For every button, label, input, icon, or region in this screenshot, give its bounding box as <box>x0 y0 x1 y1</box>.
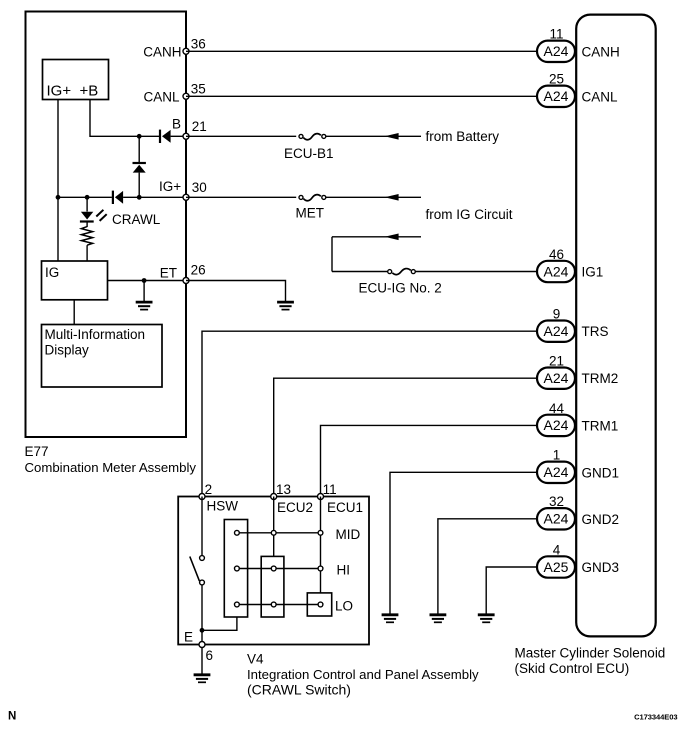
pin 6 <box>199 642 205 648</box>
svg-text:IG1: IG1 <box>582 265 604 280</box>
svg-text:GND3: GND3 <box>582 560 620 575</box>
pin 36 <box>183 48 189 54</box>
svg-text:TRM2: TRM2 <box>582 371 619 386</box>
wire TRM1 row <box>321 425 537 496</box>
wire pin 26 to outside ground <box>186 281 286 302</box>
svg-text:4: 4 <box>553 542 561 557</box>
svg-text:25: 25 <box>549 72 564 87</box>
switch S1 blade <box>190 557 200 582</box>
wire diode D1 to pin 21 <box>171 135 183 137</box>
pin 21 <box>183 133 189 139</box>
svg-text:HSW: HSW <box>207 499 239 514</box>
svg-text:E: E <box>184 629 193 644</box>
wire junction row21 down to diode D2 <box>138 136 140 162</box>
wire fuse ECU-B1 to arrow tail <box>326 135 421 137</box>
svg-text:32: 32 <box>549 494 564 509</box>
arrow from battery <box>385 133 399 140</box>
connector A24 pin 32 GND2 <box>537 494 619 529</box>
wire diode D2 to row 30 <box>138 173 140 198</box>
svg-text:A24: A24 <box>544 43 569 59</box>
svg-text:ET: ET <box>160 265 177 280</box>
wire IG circuit arrow line <box>332 236 421 238</box>
wire resistor to IG box <box>86 245 88 260</box>
wire row 30 left segment <box>58 196 112 198</box>
svg-text:21: 21 <box>549 354 564 369</box>
switch S1 lower contact <box>200 580 205 585</box>
wire HI row <box>237 568 321 570</box>
svg-text:LO: LO <box>335 599 353 614</box>
svg-text:A24: A24 <box>544 323 569 339</box>
wire fuse ECU-IG to IG1 oval <box>416 271 537 273</box>
svg-text:11: 11 <box>549 27 563 42</box>
contact ECU1/HI <box>318 566 323 571</box>
arrow from IG circuit <box>385 234 399 241</box>
wire GND1 row <box>390 472 536 614</box>
svg-text:21: 21 <box>192 119 207 134</box>
resistor R1 <box>81 227 92 246</box>
junction on row 30 right <box>137 195 142 200</box>
wire LO row <box>237 604 321 606</box>
wire pin 30 to fuse MET <box>186 196 296 198</box>
wire junction down to ground <box>143 281 145 302</box>
ground GND3 <box>478 615 495 623</box>
connector A24 pin 1 GND1 <box>537 448 619 483</box>
contact block ECU2 column <box>261 556 284 617</box>
fuse ECU-B1 <box>299 134 326 140</box>
svg-text:IG+: IG+ <box>47 83 72 100</box>
wire CANH row <box>186 50 536 52</box>
connector A24 pin 11 CANH <box>537 27 620 62</box>
svg-text:MET: MET <box>296 205 325 220</box>
pin 13 <box>271 494 277 500</box>
svg-text:V4: V4 <box>247 651 264 666</box>
contact HSW/HI <box>235 566 240 571</box>
contact HSW/MID <box>235 530 240 535</box>
wire GND2 row <box>438 519 536 614</box>
wire IG+ drop to IG box <box>57 100 59 261</box>
svg-text:CANH: CANH <box>582 44 620 59</box>
svg-text:CANH: CANH <box>143 44 181 59</box>
svg-text:Multi-Information: Multi-Information <box>45 327 146 342</box>
svg-text:44: 44 <box>549 401 565 416</box>
pin 35 <box>183 93 189 99</box>
wire pin 11 to LO block <box>320 497 322 593</box>
junction LED branch on row 30 <box>85 195 90 200</box>
wire ET row (IG box to pin 26) <box>108 280 184 282</box>
svg-text:TRM1: TRM1 <box>582 418 619 433</box>
svg-text:(Skid Control ECU): (Skid Control ECU) <box>515 661 630 676</box>
svg-text:CANL: CANL <box>582 89 619 104</box>
wire TRS row <box>202 331 536 496</box>
contact ECU2/MID <box>271 530 276 535</box>
wire pin 2 to switch <box>201 497 203 556</box>
connector A24 pin 9 TRS <box>537 307 609 342</box>
pin 2 <box>199 494 205 500</box>
contact ECU2/HI <box>271 566 276 571</box>
wire switch to node E <box>201 585 203 644</box>
fuse MET <box>299 195 326 201</box>
svg-text:11: 11 <box>323 482 337 497</box>
svg-text:HI: HI <box>337 563 351 578</box>
svg-text:6: 6 <box>206 648 214 663</box>
svg-text:IG: IG <box>45 265 59 280</box>
svg-text:Master Cylinder Solenoid: Master Cylinder Solenoid <box>515 645 666 660</box>
LED CRAWL (pointing down) <box>80 212 94 222</box>
junction IG+ drop / row 30 <box>56 195 61 200</box>
svg-text:A24: A24 <box>544 370 569 386</box>
svg-text:(CRAWL Switch): (CRAWL Switch) <box>247 682 351 698</box>
combination meter assembly box E77 <box>26 12 187 438</box>
ground (switch E) <box>194 675 211 683</box>
svg-text:C173344E03: C173344E03 <box>634 713 677 722</box>
diode D3 (row 30, pointing left) <box>113 191 123 204</box>
connector A24 pin 21 TRM2 <box>537 354 618 389</box>
svg-text:N: N <box>8 711 16 723</box>
multi-information display box <box>42 325 163 388</box>
svg-text:ECU-B1: ECU-B1 <box>284 146 334 161</box>
svg-text:Integration Control and Panel: Integration Control and Panel Assembly <box>247 667 479 682</box>
wire pin 21 to fuse ECU-B1 <box>186 135 296 137</box>
svg-text:IG+: IG+ <box>159 179 181 194</box>
connector A24 pin 44 TRM1 <box>537 401 618 436</box>
svg-text:from Battery: from Battery <box>426 129 500 144</box>
svg-text:B: B <box>172 117 181 132</box>
wire node E to contact block <box>202 617 237 630</box>
svg-text:A24: A24 <box>544 417 569 433</box>
wire pin 13 to ECU2 block <box>273 497 275 557</box>
svg-text:30: 30 <box>192 180 207 195</box>
LED emission arrows <box>96 210 106 221</box>
switch S1 upper contact <box>200 556 205 561</box>
svg-text:A24: A24 <box>544 511 569 527</box>
svg-text:Combination Meter Assembly: Combination Meter Assembly <box>25 460 197 475</box>
contact ECU1/MID <box>318 530 323 535</box>
contact HSW/LO <box>235 602 240 607</box>
ground (inside meter) <box>136 302 153 310</box>
diode D2 (vertical, pointing up) <box>133 163 146 173</box>
wire IG circuit drop <box>331 237 333 272</box>
svg-text:GND2: GND2 <box>582 512 620 527</box>
wire LED to resistor <box>86 222 88 228</box>
svg-text:from IG Circuit: from IG Circuit <box>426 207 513 222</box>
svg-text:Display: Display <box>45 343 90 358</box>
svg-text:A24: A24 <box>544 88 569 104</box>
svg-text:TRS: TRS <box>582 324 609 339</box>
svg-text:36: 36 <box>191 36 206 51</box>
connector A24 pin 25 CANL <box>537 72 618 107</box>
wire GND3 row <box>486 567 536 614</box>
wire IG box to display box <box>73 300 75 325</box>
pin 30 <box>183 194 189 200</box>
connector A25 pin 4 GND3 <box>537 542 619 577</box>
junction node E <box>200 628 205 633</box>
svg-text:13: 13 <box>276 482 291 497</box>
svg-text:2: 2 <box>205 482 213 497</box>
contact block LO <box>307 593 331 616</box>
wire to fuse ECU-IG No.2 <box>332 271 388 273</box>
wire MID row <box>237 532 321 534</box>
arrow (MET feed) <box>385 194 399 201</box>
svg-text:35: 35 <box>191 81 206 96</box>
wire CANL row <box>186 95 536 97</box>
svg-text:ECU2: ECU2 <box>277 500 313 515</box>
junction on row 21 <box>137 134 142 139</box>
svg-text:A24: A24 <box>544 263 569 279</box>
pin 11 <box>318 494 324 500</box>
contact ECU1/LO <box>318 602 323 607</box>
svg-text:A25: A25 <box>544 559 569 575</box>
svg-text:A24: A24 <box>544 464 569 480</box>
svg-text:+B: +B <box>80 83 99 100</box>
svg-text:CANL: CANL <box>143 89 180 104</box>
junction ET ground branch <box>142 278 147 283</box>
svg-text:9: 9 <box>553 307 561 322</box>
svg-text:26: 26 <box>191 263 206 278</box>
ground (ET outside) <box>277 302 294 310</box>
contact ECU2/LO <box>271 602 276 607</box>
svg-text:CRAWL: CRAWL <box>112 212 161 227</box>
svg-text:ECU-IG No. 2: ECU-IG No. 2 <box>359 280 442 295</box>
ground GND2 <box>430 615 447 623</box>
contact block HSW column <box>224 520 247 618</box>
wire TRM2 row <box>274 378 536 496</box>
fuse ECU-IG No.2 <box>388 269 416 275</box>
IG box <box>42 261 108 300</box>
pin 26 <box>183 278 189 284</box>
svg-text:GND1: GND1 <box>582 465 620 480</box>
svg-text:MID: MID <box>336 527 361 542</box>
wire junction to LED <box>86 197 88 211</box>
ground GND1 <box>382 615 399 623</box>
wire pin 6 to ground <box>201 647 203 674</box>
svg-text:46: 46 <box>549 247 564 262</box>
wire +B drop to row 21 <box>90 100 159 137</box>
svg-text:E77: E77 <box>25 444 49 459</box>
wire diode D3 to pin 30 <box>123 196 183 198</box>
svg-text:1: 1 <box>553 448 561 463</box>
connector A24 pin 46 IG1 <box>537 247 603 282</box>
master cylinder solenoid box (skid control ECU) <box>576 15 656 637</box>
wire fuse MET to arrow tail <box>326 196 421 198</box>
internal power box IG+/+B <box>43 60 109 100</box>
diode D1 (row 21, pointing left) <box>160 130 171 143</box>
integration control panel box V4 <box>178 497 369 645</box>
svg-text:ECU1: ECU1 <box>327 500 363 515</box>
